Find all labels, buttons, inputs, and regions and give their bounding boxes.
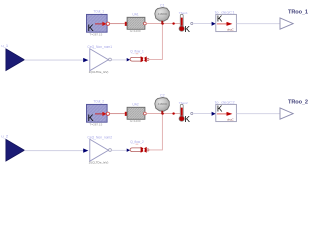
svg-text:418600: 418600 [158, 102, 168, 106]
node junction dot B1 [172, 22, 174, 24]
unit converter to_degC1 [215, 9, 237, 31]
svg-text:u_1: u_1 [1, 43, 8, 48]
heat flow input arrowhead [127, 58, 130, 61]
svg-text:K: K [185, 115, 191, 124]
temperature sensor TSen1 [179, 11, 193, 34]
svg-text:TOut_1: TOut_1 [93, 9, 104, 13]
thermal conductor UA2 [125, 103, 147, 124]
svg-text:TSen1: TSen1 [179, 11, 188, 15]
node junction dot A1 [161, 22, 163, 24]
svg-text:T=287.15: T=287.15 [90, 122, 103, 126]
svg-text:CeQ_Non_nom1: CeQ_Non_nom1 [87, 45, 112, 49]
node junction dot A2 [161, 112, 163, 114]
wire sensor to converter [193, 23, 212, 25]
wire converter to output [237, 23, 281, 25]
wire sensor to converter [193, 113, 212, 115]
wire conductor to temperature sensor [146, 23, 180, 25]
wire gain to heat flow [111, 59, 127, 61]
svg-text:K: K [185, 25, 191, 34]
heat capacitor C2 [155, 94, 170, 114]
heat capacitor C1 [155, 4, 170, 24]
svg-text:degC: degC [227, 117, 234, 121]
wire heat flow to thermal node (riser) [149, 115, 162, 150]
svg-text:G=1200: G=1200 [130, 119, 141, 123]
svg-text:degC: degC [227, 27, 234, 31]
svg-text:418600: 418600 [158, 12, 168, 16]
wire input to gain [24, 150, 83, 152]
svg-text:Q_flow_2: Q_flow_2 [130, 140, 144, 144]
svg-text:u_2: u_2 [1, 134, 8, 139]
svg-text:G=1200: G=1200 [130, 29, 141, 33]
svg-text:TOut_2: TOut_2 [93, 99, 104, 103]
input connector u_1 [1, 43, 24, 71]
prescribed heat flow Q_flow_2 [130, 140, 149, 153]
svg-text:UA2: UA2 [132, 103, 138, 107]
output connector TRoo_1 [280, 9, 308, 29]
wire heat flow to thermal node (riser) [149, 25, 162, 60]
gain input arrowhead [83, 58, 88, 62]
wire fixed temperature to conductor [110, 113, 125, 115]
fixed temperature block TOut2 [87, 99, 110, 126]
svg-text:1/(CLTDe_IsV): 1/(CLTDe_IsV) [89, 160, 109, 164]
svg-text:Q_flow_1: Q_flow_1 [130, 49, 144, 53]
svg-text:UA1: UA1 [132, 13, 138, 17]
svg-text:TSen2: TSen2 [179, 101, 188, 105]
gain block CeQ_Non_nom1 [87, 45, 112, 74]
svg-text:T=287.15: T=287.15 [90, 32, 103, 36]
svg-text:CeQ_Non_nom2: CeQ_Non_nom2 [87, 136, 112, 140]
wire input to gain [24, 59, 83, 61]
svg-text:C1: C1 [160, 4, 165, 8]
unit converter to_degC2 [215, 99, 237, 121]
heat flow input arrowhead [127, 149, 130, 152]
temperature sensor TSen2 [179, 101, 193, 124]
converter input arrowhead [212, 112, 216, 116]
thermal conductor UA1 [125, 13, 147, 34]
svg-text:C2: C2 [160, 94, 165, 98]
prescribed heat flow Q_flow_1 [130, 49, 149, 62]
svg-text:K: K [217, 105, 223, 114]
svg-text:TRoo_2: TRoo_2 [288, 99, 308, 105]
svg-text:K: K [217, 15, 223, 24]
wire fixed temperature to conductor [110, 23, 125, 25]
wire converter to output [237, 113, 281, 115]
wire gain to heat flow [111, 149, 127, 151]
gain input arrowhead [83, 148, 88, 152]
svg-text:1/(CLTDe_IsV): 1/(CLTDe_IsV) [89, 70, 109, 74]
svg-text:TRoo_1: TRoo_1 [288, 9, 308, 15]
gain block CeQ_Non_nom2 [87, 136, 112, 165]
output connector TRoo_2 [280, 99, 308, 119]
input connector u_2 [1, 134, 24, 162]
node junction dot B2 [172, 112, 174, 114]
wire conductor to temperature sensor [146, 113, 180, 115]
converter input arrowhead [212, 22, 216, 26]
fixed temperature block TOut1 [87, 9, 110, 36]
